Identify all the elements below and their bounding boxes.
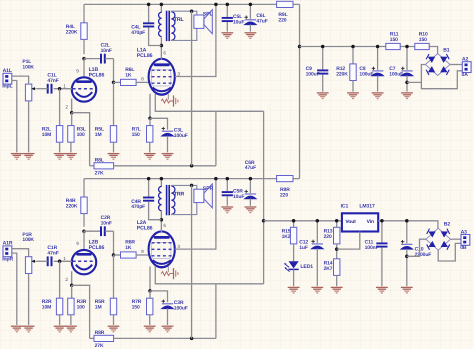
- svg-text:TRR: TRR: [174, 191, 185, 197]
- wire triode cathode L: [71, 99, 73, 113]
- wire secondary bottom to speaker R: [171, 203, 196, 215]
- svg-text:B1: B1: [443, 47, 450, 53]
- ground C12: [311, 287, 323, 293]
- svg-text:27K: 27K: [95, 171, 104, 177]
- wire pentode cathode R: [155, 266, 263, 284]
- node pentode grid R: [112, 253, 116, 257]
- ground R5L: [108, 154, 120, 160]
- svg-text:10uF: 10uF: [233, 194, 244, 200]
- wire cathode tee to feedback R: [215, 284, 217, 339]
- ground LED1: [288, 287, 300, 293]
- wire triode grid R: [54, 260, 72, 262]
- ground C6R: [245, 207, 257, 213]
- svg-text:LM317: LM317: [359, 204, 375, 210]
- ground A1L: [11, 154, 23, 160]
- ground R2L: [54, 154, 66, 160]
- resistor R9R 220: [277, 176, 293, 199]
- svg-text:InpR: InpR: [2, 256, 13, 262]
- svg-text:10nF: 10nF: [101, 48, 112, 54]
- wire main B+ vertical: [299, 4, 301, 178]
- node C10 bottom: [405, 255, 409, 259]
- bridge rectifier B1: [425, 47, 450, 75]
- capacitor C3R 100uF: [150, 291, 188, 325]
- node transformer primary top L: [160, 3, 164, 7]
- resistor R4R 220K: [66, 179, 87, 227]
- svg-text:47nF: 47nF: [47, 251, 58, 257]
- ground R5R: [108, 326, 120, 332]
- wire B1 left corner to ground line: [407, 65, 425, 83]
- capacitor C1R 47nF: [37, 245, 59, 266]
- node transformer primary top R: [160, 177, 164, 181]
- node transformer primary bottom R: [160, 218, 164, 222]
- pentode L1A PCL86: [137, 48, 175, 95]
- wire secondary top to speaker R: [171, 185, 196, 189]
- resistor R3L 100: [68, 113, 86, 153]
- svg-text:47uF: 47uF: [245, 165, 256, 171]
- transformer TRL: [159, 4, 185, 45]
- connector A1L: [2, 68, 12, 90]
- resistor R9L 220: [277, 1, 293, 23]
- capacitor C4R 470pF: [131, 179, 161, 220]
- node C7 ground: [405, 81, 409, 85]
- node screen rail L: [214, 3, 218, 7]
- speaker SPR: [194, 184, 214, 208]
- wire heater feed vertical: [263, 111, 265, 284]
- ground C7: [401, 93, 413, 99]
- ground R3L: [65, 154, 77, 160]
- svg-text:0A: 0A: [462, 72, 469, 78]
- ground A1R: [11, 326, 23, 332]
- node feedback L: [190, 164, 194, 168]
- svg-text:Vout: Vout: [345, 219, 356, 225]
- node pentode grid L: [112, 81, 116, 85]
- resistor R6R 1K: [114, 240, 149, 259]
- wire heater line bottom channel: [155, 283, 263, 285]
- node grid leak L: [58, 87, 62, 91]
- svg-text:A3: A3: [461, 229, 468, 235]
- svg-text:A1L: A1L: [3, 68, 12, 74]
- node grid leak R: [58, 260, 62, 264]
- svg-text:IC1: IC1: [341, 204, 349, 210]
- wire A1L pin2 to ground: [12, 81, 17, 153]
- svg-text:150: 150: [419, 37, 427, 43]
- svg-text:SPL: SPL: [203, 12, 214, 18]
- heater filament R: [161, 266, 178, 279]
- ground C3L: [162, 154, 174, 160]
- wire B+ filter rail: [300, 47, 438, 54]
- wire secondary top to speaker L: [171, 11, 196, 15]
- resistor R5L 1M: [95, 82, 117, 152]
- svg-text:A1R: A1R: [3, 241, 13, 247]
- svg-text:100uF: 100uF: [389, 72, 403, 78]
- resistor R11 150: [386, 31, 400, 49]
- LED LED1: [284, 261, 313, 286]
- node screen rail R: [214, 177, 218, 181]
- resistor R10 150: [415, 31, 429, 49]
- svg-text:1M: 1M: [95, 304, 102, 310]
- svg-text:2K7: 2K7: [324, 266, 333, 272]
- svg-text:A2: A2: [462, 57, 469, 63]
- wire B+ rail L channel: [84, 3, 300, 5]
- wire adj to LM317: [337, 232, 360, 250]
- svg-text:PCL86: PCL86: [137, 226, 153, 232]
- potentiometer P1R 100K: [22, 232, 39, 325]
- wire cathode to feedback L: [72, 113, 90, 166]
- ground R3R: [65, 326, 77, 332]
- connector A1R: [2, 241, 13, 263]
- wire B2 bottom to A3 pin2: [438, 243, 461, 261]
- svg-text:1uF: 1uF: [299, 245, 308, 251]
- speaker SPL: [194, 10, 214, 34]
- node pentode cathode L: [148, 117, 152, 121]
- svg-text:Vin: Vin: [367, 219, 374, 225]
- svg-text:TRL: TRL: [174, 17, 185, 23]
- wire triode grid L: [54, 88, 72, 90]
- svg-text:100K: 100K: [22, 237, 34, 243]
- node LM317 output rail left: [262, 219, 266, 223]
- svg-text:1K: 1K: [125, 72, 132, 78]
- capacitor C1L 47nF: [37, 73, 59, 94]
- wire A1R pin2 to ground: [12, 253, 17, 325]
- resistor R8R 27K: [90, 330, 216, 349]
- svg-text:100: 100: [77, 132, 85, 138]
- ground R7R: [144, 326, 156, 332]
- connector A2: [462, 57, 472, 79]
- ground C3R: [162, 326, 174, 332]
- resistor R12 220K: [336, 47, 356, 92]
- wire pentode cathode resistor lead L: [149, 94, 151, 119]
- svg-text:100uF: 100uF: [306, 72, 320, 78]
- svg-text:R8L: R8L: [95, 158, 104, 164]
- svg-text:R8R: R8R: [95, 330, 105, 336]
- capacitor C12 1uF: [299, 221, 323, 286]
- svg-text:10uF: 10uF: [233, 20, 244, 26]
- svg-text:1K: 1K: [125, 245, 132, 251]
- svg-text:0B: 0B: [460, 245, 467, 251]
- svg-text:220K: 220K: [66, 204, 78, 210]
- svg-text:1K2: 1K2: [282, 234, 291, 240]
- resistor R7R 150: [132, 291, 153, 325]
- wire B2 left corner to C10: [407, 239, 426, 256]
- resistor R13 220: [324, 221, 340, 259]
- svg-text:10nF: 10nF: [101, 220, 112, 226]
- svg-text:100nF: 100nF: [365, 245, 379, 251]
- bridge rectifier B2: [426, 222, 451, 251]
- node triode plate R: [82, 229, 86, 233]
- capacitor C9 100uF: [306, 47, 329, 92]
- wire pentode plate R: [160, 220, 162, 233]
- ground R2R: [54, 326, 66, 332]
- resistor R7L 150: [132, 118, 153, 152]
- svg-text:150: 150: [390, 37, 398, 43]
- capacitor C2L 10nF: [84, 42, 114, 63]
- pentode L2A PCL86: [137, 220, 175, 267]
- ground R12: [347, 93, 359, 99]
- wire LM317 input rail: [378, 221, 438, 228]
- ground C8: [372, 93, 384, 99]
- svg-text:10M: 10M: [42, 304, 51, 310]
- wire pentode screen to rail R: [175, 179, 216, 250]
- svg-text:10M: 10M: [42, 132, 51, 138]
- triode L1B PCL86: [72, 59, 105, 102]
- ground P1R: [23, 326, 35, 332]
- svg-text:2200uF: 2200uF: [415, 252, 432, 258]
- resistor R14 2K7: [324, 259, 340, 286]
- resistor R4L 220K: [66, 4, 87, 54]
- svg-text:100uF: 100uF: [174, 305, 188, 311]
- svg-text:220: 220: [278, 18, 286, 24]
- svg-text:InpL: InpL: [2, 84, 12, 90]
- node C4L rail: [147, 3, 151, 7]
- svg-text:1M: 1M: [95, 132, 102, 138]
- svg-text:100K: 100K: [22, 65, 34, 71]
- wire B2 right corner to connector A3: [451, 238, 462, 240]
- node feedback tap R: [190, 184, 194, 188]
- ground R14: [331, 287, 343, 293]
- svg-text:SPR: SPR: [203, 186, 214, 192]
- wire A1L pin1 to P1L: [12, 76, 29, 84]
- regulator IC1 LM317: [341, 204, 379, 232]
- svg-text:220: 220: [324, 234, 332, 240]
- svg-text:150: 150: [132, 304, 140, 310]
- svg-text:150: 150: [132, 132, 140, 138]
- svg-text:LED1: LED1: [300, 264, 313, 270]
- capacitor C4L 470pF: [131, 4, 161, 45]
- wire pentode cathode L: [155, 94, 263, 112]
- svg-text:PCL86: PCL86: [89, 72, 105, 78]
- svg-text:100: 100: [77, 304, 85, 310]
- wire C2L to grid node: [113, 59, 115, 83]
- connector A3: [460, 229, 470, 251]
- node transformer primary bottom L: [160, 44, 164, 48]
- node feedback R: [190, 337, 194, 341]
- svg-text:47uF: 47uF: [256, 19, 267, 25]
- ground R7L: [144, 154, 156, 160]
- svg-text:220: 220: [280, 192, 288, 198]
- wire LM317 output rail: [264, 220, 342, 222]
- triode L2B PCL86: [72, 231, 105, 274]
- svg-text:470pF: 470pF: [131, 30, 145, 36]
- svg-text:220K: 220K: [336, 72, 348, 78]
- svg-text:220K: 220K: [66, 29, 78, 35]
- wire feedback L: [191, 11, 193, 166]
- svg-text:470pF: 470pF: [131, 204, 145, 210]
- capacitor C2R 10nF: [84, 215, 114, 236]
- node C4R rail: [147, 177, 151, 181]
- node triode cathode L: [70, 111, 74, 115]
- node LM317 adj: [335, 247, 339, 251]
- wire pentode screen to rail L: [175, 4, 216, 76]
- wire cathode to feedback R: [72, 285, 90, 338]
- wire pentode cathode resistor lead R: [149, 266, 151, 291]
- resistor R2L 10M: [42, 89, 63, 153]
- node triode cathode R: [70, 284, 74, 288]
- wire B1 right corner to connector A2: [450, 64, 462, 66]
- wire cathode tee to feedback L: [215, 111, 217, 166]
- wire pentode plate L: [160, 46, 162, 61]
- node feedback tap L: [190, 9, 194, 13]
- capacitor C7 100uF: [389, 47, 413, 92]
- ground C5R: [221, 207, 233, 213]
- heater filament L: [161, 94, 178, 107]
- svg-text:27K: 27K: [95, 343, 104, 349]
- wire secondary bottom to speaker L: [171, 28, 196, 40]
- ground C5L: [221, 33, 233, 39]
- svg-text:PCL86: PCL86: [137, 53, 153, 59]
- svg-text:47nF: 47nF: [47, 78, 58, 84]
- wire A2 pin2 return: [421, 71, 462, 89]
- ground P1L: [23, 154, 35, 160]
- wire B+ rail R channel: [84, 178, 299, 180]
- ground C10: [401, 287, 413, 293]
- capacitor C10 2200uF: [401, 221, 431, 286]
- resistor R15 1K2: [282, 221, 297, 261]
- capacitor C6R 47uF: [245, 160, 257, 206]
- ground C6L: [245, 33, 257, 39]
- ground C11: [376, 287, 388, 293]
- resistor R6L 1K: [114, 67, 149, 86]
- wire A1R pin1 to P1R: [12, 249, 29, 257]
- capacitor C3L 100uF: [150, 118, 188, 152]
- ground C9: [317, 93, 329, 99]
- wire C2R to grid node: [113, 231, 115, 255]
- resistor R5R 1M: [95, 255, 117, 325]
- transformer TRR: [159, 179, 185, 220]
- node pentode cathode R: [148, 289, 152, 293]
- capacitor C6L 47uF: [245, 4, 268, 31]
- resistor R3R 100: [68, 285, 87, 325]
- resistor R8L 27K: [90, 158, 216, 177]
- svg-text:100uF: 100uF: [359, 72, 373, 78]
- capacitor C5R 10uF: [222, 179, 245, 206]
- wire feedback R: [191, 185, 193, 338]
- svg-text:100uF: 100uF: [174, 133, 188, 139]
- capacitor C5L 10uF: [222, 4, 245, 31]
- potentiometer P1L 100K: [22, 59, 39, 152]
- node B+ distribution: [298, 45, 302, 49]
- capacitor C11 100nF: [365, 221, 388, 286]
- svg-text:PCL86: PCL86: [89, 245, 105, 251]
- resistor R2R 10M: [42, 261, 63, 325]
- node triode plate L: [82, 57, 86, 61]
- wire triode cathode R: [71, 271, 73, 285]
- svg-text:B2: B2: [444, 222, 451, 228]
- capacitor C8 100uF: [359, 47, 383, 92]
